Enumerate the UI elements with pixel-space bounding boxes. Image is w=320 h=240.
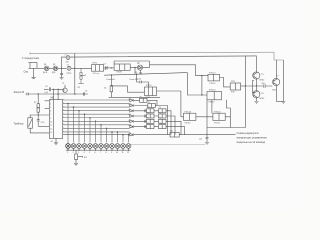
IC left pin 1 bbox=[45, 100, 50, 102]
lamp L3 bbox=[77, 144, 82, 149]
connector P1 below bbox=[75, 150, 83, 163]
svg-text:1: 1 bbox=[67, 152, 68, 154]
output row 6 bbox=[129, 127, 184, 135]
svg-text:Д2: Д2 bbox=[53, 64, 55, 66]
wire right rail bbox=[282, 60, 284, 101]
capacitor C5 bbox=[49, 87, 50, 91]
resistor R2 vertical bbox=[110, 75, 113, 97]
diode DR2 bbox=[130, 104, 133, 107]
svg-text:РП4: РП4 bbox=[231, 91, 235, 93]
svg-text:С14: С14 bbox=[199, 139, 202, 141]
capacitor C2 to ground bbox=[60, 68, 63, 77]
svg-text:Ш1: Ш1 bbox=[84, 157, 87, 159]
svg-text:11: 11 bbox=[122, 152, 124, 154]
node J5 bbox=[136, 74, 137, 75]
wire y128 bbox=[207, 127, 246, 129]
lamp L6 bbox=[93, 144, 98, 149]
svg-text:Запуск В: Запуск В bbox=[14, 90, 25, 94]
wire C5 line bbox=[44, 88, 63, 90]
lamp L12 bbox=[126, 144, 131, 149]
node J3 bbox=[111, 67, 112, 68]
relay K1 box bbox=[144, 87, 156, 96]
node J2 bbox=[74, 68, 75, 69]
node J2b bbox=[74, 93, 75, 94]
output row 3 bbox=[129, 111, 171, 135]
transistor T6 bbox=[253, 72, 260, 79]
filter block PF1 bbox=[92, 65, 104, 72]
wire drop x245.5 bbox=[246, 56, 257, 128]
wire T7 emitter to ground bbox=[256, 98, 258, 102]
wire diode out jog bbox=[143, 61, 208, 76]
svg-text:15к: 15к bbox=[104, 88, 107, 90]
diode DR5 bbox=[130, 120, 133, 123]
svg-text:Д1: Д1 bbox=[44, 64, 46, 66]
diode D3 bbox=[137, 65, 142, 70]
wire lamp bottom rail bbox=[66, 149, 131, 151]
capacitor C10 bbox=[37, 115, 40, 126]
node J12 bbox=[134, 67, 135, 68]
wire to junction bbox=[58, 67, 66, 69]
wire K2 out bbox=[220, 78, 231, 87]
transistor T1 circle bbox=[67, 66, 71, 70]
matrix columns bbox=[68, 104, 129, 143]
svg-text:ДК-И: ДК-И bbox=[43, 72, 48, 74]
wire base column bbox=[252, 81, 254, 93]
svg-text:ПФ2К: ПФ2К bbox=[117, 71, 123, 74]
resistor R1 bbox=[78, 68, 86, 83]
svg-text:9: 9 bbox=[111, 152, 112, 154]
node J16 bbox=[111, 85, 112, 86]
IC pin numbers bbox=[50, 100, 52, 134]
wire PF1 to PF2 bbox=[104, 67, 115, 69]
svg-text:10: 10 bbox=[50, 121, 52, 123]
relay boxes row3 bbox=[147, 109, 167, 113]
relay K3 pair bbox=[207, 92, 222, 100]
svg-text:С6: С6 bbox=[85, 91, 87, 93]
capacitor C12 coupling bbox=[264, 84, 265, 87]
diode DR3 bbox=[130, 110, 133, 113]
diode row labels bbox=[129, 98, 131, 134]
wire resistor R4 chain bbox=[37, 94, 39, 115]
extra value labels bbox=[34, 55, 276, 141]
caption text bbox=[237, 131, 268, 144]
row box labels bbox=[140, 97, 173, 133]
diode DR6 bbox=[130, 125, 133, 128]
wire K4 feed vertical bbox=[180, 91, 182, 117]
svg-text:МП42: МП42 bbox=[260, 79, 265, 81]
ground D3 bbox=[139, 70, 142, 74]
ground P1 bbox=[74, 163, 78, 165]
svg-text:R15: R15 bbox=[262, 83, 265, 85]
svg-text:0,05: 0,05 bbox=[45, 92, 49, 94]
relay boxes row1 bbox=[140, 98, 148, 102]
wire T8 emitter bbox=[277, 86, 284, 102]
svg-text:6: 6 bbox=[50, 111, 51, 113]
relay boxes row6 bbox=[147, 125, 167, 129]
ground C11 bbox=[205, 142, 209, 144]
wire after T1 bbox=[71, 67, 91, 69]
lamp labels bbox=[67, 152, 129, 154]
svg-text:7: 7 bbox=[50, 114, 51, 116]
ground bbox=[60, 78, 64, 80]
svg-text:R2: R2 bbox=[78, 87, 80, 89]
relay K4a bbox=[184, 113, 196, 120]
diode DR4 bbox=[130, 115, 133, 118]
wire rail y97.3 bbox=[109, 96, 160, 98]
switch S2 bbox=[29, 115, 31, 118]
lamp L9 bbox=[110, 144, 115, 149]
node J8 bbox=[38, 93, 39, 94]
relay K2 pair bbox=[208, 74, 220, 81]
wire T8 collector up bbox=[276, 60, 278, 78]
relay boxes row7 bbox=[170, 132, 179, 137]
svg-text:4: 4 bbox=[50, 104, 51, 106]
svg-text:6: 6 bbox=[95, 152, 96, 154]
lamp L2 bbox=[71, 144, 76, 149]
lamp L1 bbox=[66, 144, 71, 149]
svg-text:МП42: МП42 bbox=[260, 98, 265, 100]
capacitor C1 in bus2 bbox=[66, 55, 70, 59]
wire PF2 out bbox=[130, 67, 137, 69]
wire T6 emitter chain bbox=[256, 79, 258, 90]
node J11 bbox=[38, 114, 39, 115]
wire branch y61 bbox=[114, 61, 149, 64]
transistor T8 bbox=[273, 78, 280, 85]
lamp L10 bbox=[115, 144, 120, 149]
lamp bottom ticks bbox=[68, 148, 129, 150]
capacitor C11 bbox=[206, 128, 209, 143]
ground right rail bbox=[281, 102, 285, 104]
wire bus1 top rail bbox=[30, 52, 274, 53]
wire switch bottom to pin5 bbox=[30, 128, 49, 133]
wire contacts verticals bbox=[207, 100, 212, 128]
diode DR1 bbox=[130, 99, 133, 102]
matrix row pin ticks bbox=[63, 99, 65, 132]
wire K3 feed bbox=[187, 73, 207, 95]
output row 2 bbox=[129, 106, 167, 135]
svg-text:РЭС10: РЭС10 bbox=[185, 122, 191, 124]
svg-text:РЭС10: РЭС10 bbox=[214, 111, 221, 113]
wire vertical x74.8 bbox=[74, 53, 76, 94]
svg-text:РЭС9: РЭС9 bbox=[146, 97, 151, 99]
wire relay rail sloped bbox=[104, 73, 187, 76]
lamp L4 bbox=[82, 144, 87, 149]
svg-text:аппаратуры управления: аппаратуры управления bbox=[237, 137, 268, 140]
svg-text:5: 5 bbox=[89, 152, 90, 154]
transistor T7 bbox=[253, 91, 260, 98]
relay K4b bbox=[213, 113, 225, 120]
node J9 bbox=[57, 93, 58, 94]
svg-text:Схема радиоузла: Схема радиоузла bbox=[237, 131, 259, 135]
node J7 bbox=[256, 85, 257, 86]
wire input line bbox=[30, 67, 44, 69]
svg-text:С передатчика: С передатчика bbox=[22, 57, 40, 60]
svg-text:12: 12 bbox=[127, 152, 129, 154]
node J1 bbox=[61, 68, 62, 69]
svg-text:4: 4 bbox=[84, 152, 85, 154]
svg-text:С7: С7 bbox=[104, 64, 106, 66]
wire bus1 right drop bbox=[274, 52, 283, 60]
svg-text:РЭС10: РЭС10 bbox=[210, 83, 216, 85]
svg-text:9: 9 bbox=[50, 118, 51, 120]
svg-text:РЭС9: РЭС9 bbox=[146, 85, 152, 87]
svg-text:Т2: Т2 bbox=[62, 83, 64, 85]
svg-text:РЭС10: РЭС10 bbox=[209, 102, 215, 104]
svg-text:РЭС10: РЭС10 bbox=[209, 72, 216, 74]
lamp rail dots bbox=[67, 150, 129, 151]
svg-text:10,7 кгц: 10,7 кгц bbox=[93, 73, 99, 75]
relay boxes row4 bbox=[147, 114, 167, 118]
svg-text:3: 3 bbox=[78, 152, 79, 154]
button S1 bbox=[25, 93, 31, 96]
wire IC top feed bbox=[57, 89, 59, 99]
wire to pin3 bbox=[30, 114, 50, 116]
node J4 bbox=[111, 74, 112, 75]
svg-text:РЭС10: РЭС10 bbox=[185, 111, 192, 113]
matrix rows bbox=[63, 100, 130, 132]
node bus1 start tick bbox=[29, 52, 31, 54]
wire bus2 rail bbox=[62, 56, 257, 57]
svg-text:2: 2 bbox=[73, 152, 74, 154]
lamp L8 bbox=[104, 144, 109, 149]
relay boxes row2 bbox=[148, 104, 156, 108]
wire cap to pin4 bbox=[38, 125, 49, 127]
wire junction up to bus2 bbox=[61, 57, 63, 69]
svg-text:РЭС10: РЭС10 bbox=[214, 122, 220, 124]
svg-text:ПФ1: ПФ1 bbox=[93, 62, 98, 65]
relay boxes row5 bbox=[147, 119, 167, 123]
filter block PF2 bbox=[114, 64, 130, 70]
ground T7 bbox=[254, 101, 258, 103]
output row 4 bbox=[129, 116, 175, 135]
capacitor C12 bbox=[137, 74, 149, 87]
lamp L5 bbox=[88, 144, 93, 149]
wire zapusk line bbox=[32, 93, 88, 95]
svg-text:Д9: Д9 bbox=[135, 72, 137, 74]
relay K5 stacked bbox=[230, 83, 240, 90]
svg-text:П214: П214 bbox=[272, 90, 276, 92]
diode DR7 bbox=[130, 133, 133, 136]
svg-text:Сму: Сму bbox=[24, 70, 29, 73]
wire K2 drop bbox=[201, 76, 203, 95]
IC U1 box bbox=[49, 100, 62, 139]
matrix junction dots bbox=[67, 103, 129, 136]
svg-text:100: 100 bbox=[66, 61, 69, 63]
node J10b bbox=[53, 89, 54, 90]
lamp connectors row bbox=[66, 142, 71, 149]
svg-text:Тумблер: Тумблер bbox=[14, 123, 24, 126]
wire K5 out bbox=[241, 85, 246, 87]
wire K1 out bbox=[157, 90, 181, 92]
svg-text:7: 7 bbox=[100, 152, 101, 154]
lamp circles bbox=[66, 144, 131, 149]
output row 1 bbox=[129, 100, 157, 105]
node J15 bbox=[201, 94, 202, 95]
svg-text:11: 11 bbox=[50, 125, 52, 127]
row cap marks bbox=[144, 109, 145, 128]
connector input jog bbox=[29, 63, 38, 69]
svg-text:13: 13 bbox=[50, 132, 52, 134]
node J17 bbox=[201, 75, 202, 76]
svg-text:РЭС10: РЭС10 bbox=[209, 90, 216, 92]
ground smu bbox=[32, 68, 36, 78]
svg-text:8: 8 bbox=[106, 152, 107, 154]
wire y108 right link bbox=[226, 100, 230, 117]
svg-text:5: 5 bbox=[50, 107, 51, 109]
trimmer capacitor C7 bbox=[105, 66, 108, 70]
IC left pin 2 bbox=[45, 107, 50, 109]
node J6 bbox=[245, 85, 246, 86]
svg-text:Ст: Ст bbox=[65, 55, 67, 57]
wire IC top feed 2 bbox=[52, 89, 54, 99]
IC bottom ground bbox=[55, 138, 57, 142]
wire bus2 right drop to T6 bbox=[256, 56, 258, 72]
diode D1 bbox=[44, 66, 49, 71]
wire T6T7 mid to T8 base bbox=[257, 85, 273, 87]
wire J12 drop to rail bbox=[134, 68, 136, 75]
output row 7 bottom bbox=[63, 134, 236, 136]
svg-text:моделью на 12 команд: моделью на 12 команд bbox=[237, 140, 266, 144]
diode D2 bbox=[49, 67, 53, 69]
svg-text:12: 12 bbox=[50, 128, 52, 130]
svg-text:Т1: Т1 bbox=[67, 64, 69, 66]
wire K1 input path bbox=[111, 86, 144, 92]
wire lamp common bbox=[131, 144, 205, 146]
svg-text:R7: R7 bbox=[34, 102, 36, 104]
wire K4 link bbox=[181, 117, 231, 128]
capacitor C6 bbox=[83, 92, 84, 95]
transistor T3 bbox=[63, 85, 67, 93]
svg-text:3: 3 bbox=[50, 100, 51, 102]
node J10 bbox=[57, 89, 58, 90]
svg-text:10: 10 bbox=[116, 152, 118, 154]
lamp L11 bbox=[121, 144, 126, 149]
lamp L7 bbox=[99, 144, 104, 149]
output row 5 bbox=[129, 121, 181, 134]
